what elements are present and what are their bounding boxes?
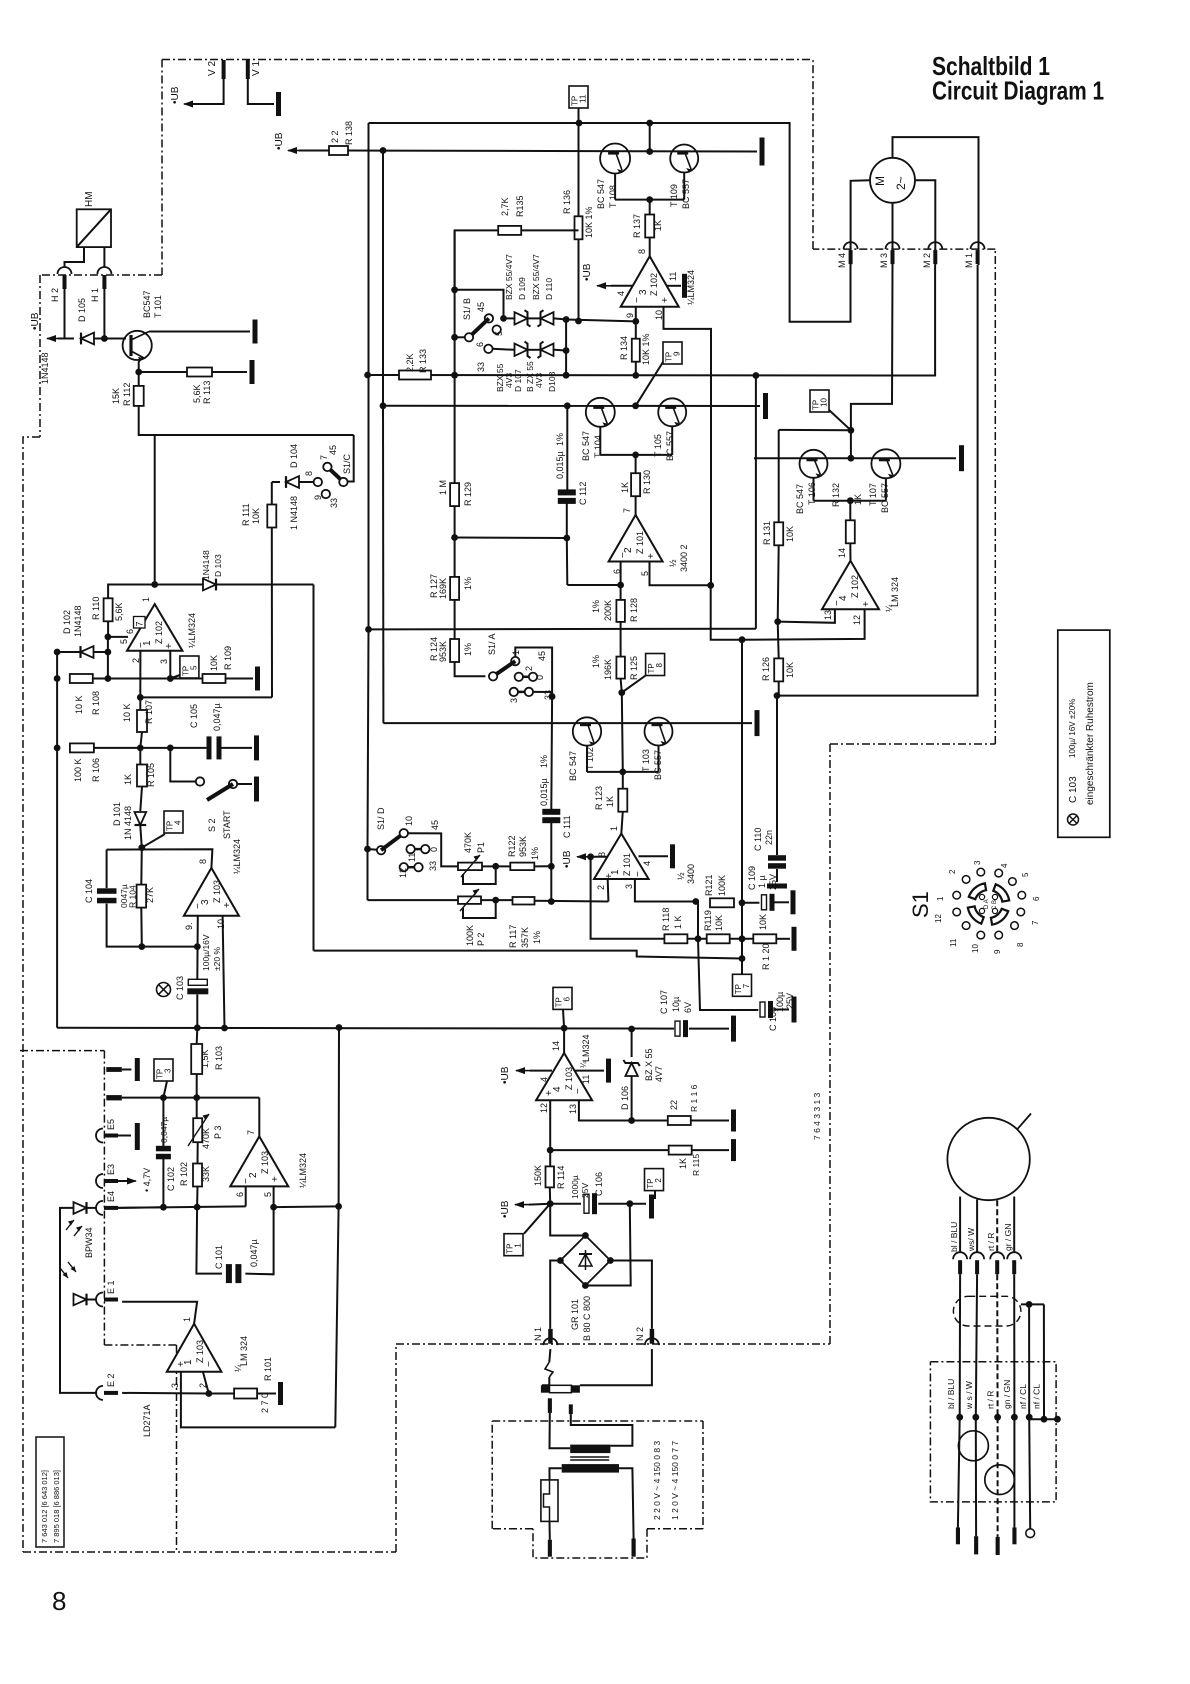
svg-text:−: −: [832, 600, 843, 606]
wire TP10 diagonal: [829, 410, 851, 430]
potentiometer P1 470K: [458, 832, 486, 870]
resistor R124 953K 1%: [429, 637, 473, 662]
bus to ground after C107: [689, 1028, 729, 1030]
wire C104 left loop: [106, 850, 108, 889]
svg-text:953K: 953K: [438, 641, 448, 662]
svg-text:5: 5: [189, 665, 198, 670]
junction zener column mid: [563, 347, 570, 354]
svg-text:R135: R135: [515, 195, 525, 217]
+UB arrow at Z102 pin4: [582, 263, 611, 289]
svg-text:200K: 200K: [603, 600, 613, 621]
svg-text:13: 13: [823, 610, 833, 620]
wire C108 to ground: [773, 1009, 789, 1011]
wire Z101 pin2: [607, 879, 610, 902]
C101 loop right: [245, 1207, 273, 1274]
labels C112: [555, 433, 588, 505]
svg-text:Circuit Diagram 1: Circuit Diagram 1: [932, 76, 1104, 106]
resistor R118 1K: [661, 908, 687, 944]
svg-text:R 126: R 126: [761, 657, 771, 681]
potentiometer P3 470K: [193, 1118, 223, 1149]
svg-text:S 2: S 2: [207, 818, 217, 832]
wire pin6 to R128: [620, 585, 622, 600]
svg-text:D 109: D 109: [517, 277, 527, 300]
svg-text:10: 10: [404, 816, 414, 826]
svg-text:R 101: R 101: [263, 1357, 273, 1381]
wire Z102 pin11 to bar: [667, 285, 682, 287]
resistor R134 10K 1%: [619, 333, 651, 365]
wire tap1 down: [550, 1413, 571, 1448]
ground at C109: [791, 890, 796, 914]
svg-text:4: 4: [1000, 863, 1009, 868]
switch S1/D contact 10: [400, 829, 408, 837]
svg-text:•UB: •UB: [170, 86, 181, 104]
top-left pin to ground pair: [106, 1067, 131, 1072]
bridge rectifier GR101 B80C800: [560, 1236, 610, 1342]
svg-text:R 114: R 114: [556, 1166, 566, 1189]
svg-text:GR 101: GR 101: [570, 1299, 580, 1330]
C110 to ground: [776, 869, 778, 882]
svg-text:E 1: E 1: [106, 1280, 116, 1294]
wire junction to C112 column: [455, 537, 567, 540]
wire E5 to ground: [118, 1135, 131, 1137]
svg-text:R 105: R 105: [146, 763, 156, 787]
svg-text:9: 9: [673, 351, 682, 356]
wire D101 to output node: [140, 826, 142, 848]
wire T106 base down: [813, 478, 815, 501]
svg-text:½: ½: [676, 872, 686, 880]
wire emitter join row: [615, 199, 684, 201]
capacitor C105 0,047u: [207, 736, 222, 759]
transformer dashed box bottom right: [647, 1528, 703, 1530]
relay HM: [77, 191, 111, 247]
ground at S2: [254, 777, 259, 802]
transformer secondary winding bar: [562, 1464, 619, 1473]
resistor R101 270: [234, 1357, 273, 1413]
junction box gn: [1011, 1414, 1018, 1421]
label 1/4 LM324 at Z103-3: [232, 839, 242, 874]
junction oval right: [1026, 1301, 1033, 1308]
motor lead ws/W: [976, 1200, 978, 1253]
wire H2 down to +UB row: [64, 289, 66, 339]
wire nf bus: [1029, 1418, 1057, 1420]
svg-text:•UB: •UB: [500, 1200, 511, 1218]
svg-text:R 118: R 118: [661, 908, 671, 931]
labels S2 START: [207, 810, 232, 839]
resistor R116 22: [668, 1084, 699, 1125]
svg-text:R 132: R 132: [831, 483, 841, 507]
switch S2 contact a: [196, 777, 204, 785]
connector M3: [879, 242, 900, 268]
junction jogline riser: [739, 955, 746, 962]
svg-text:R 112: R 112: [122, 383, 132, 406]
svg-text:1%: 1%: [532, 931, 542, 944]
electrolytic capacitor C109 1u 25V: [762, 894, 775, 911]
wire R114 node down: [550, 1204, 585, 1236]
svg-text:V 2: V 2: [207, 61, 218, 76]
junction S1D wiper column: [364, 846, 371, 853]
svg-text:R 109: R 109: [223, 646, 233, 670]
svg-text:LD271A: LD271A: [142, 1404, 152, 1437]
svg-text:R 117: R 117: [508, 925, 518, 948]
wire pin6 row from C112: [567, 584, 620, 586]
wire base column: [649, 123, 651, 152]
svg-text:BPW34: BPW34: [84, 1227, 94, 1258]
svg-text:100µ/16V: 100µ/16V: [201, 934, 211, 971]
svg-text:4: 4: [642, 861, 652, 866]
ground at Z101 pin4: [670, 844, 675, 868]
svg-text:1 M: 1 M: [438, 480, 448, 495]
ground at Z103-4 pin11: [606, 1059, 611, 1083]
junction TP10 / R131 row: [848, 427, 855, 434]
switch S2 wiper: [207, 784, 233, 800]
junction left column R106 row: [54, 745, 61, 752]
test point TP10: [810, 390, 829, 412]
junction R110 / pin56 stub: [105, 634, 112, 641]
wire bus to Z103-4 pin14: [563, 1028, 565, 1053]
test point TP2: [645, 1169, 664, 1191]
switch S2 contact b: [229, 780, 237, 788]
lead rt in box: [997, 1417, 999, 1537]
junction base row center G: [619, 769, 626, 776]
wire D102 row: [57, 651, 81, 653]
zener diode D107 BZX55 4V3: [515, 342, 531, 358]
svg-text:0: 0: [535, 675, 545, 680]
pin7 box at Z102-1: [134, 617, 146, 629]
svg-text:470K: 470K: [463, 832, 473, 853]
junction x383 / T104 rail: [380, 402, 387, 409]
svg-text:R 128: R 128: [629, 598, 639, 622]
wire R117 to pin2: [534, 900, 608, 903]
ground at V1: [276, 92, 281, 116]
svg-text:R 103: R 103: [214, 1046, 224, 1070]
diode D102 1N4148: [81, 646, 94, 658]
labels C102: [159, 1117, 176, 1191]
wire R116 to ground: [691, 1120, 729, 1122]
wire R132 to Z102 pin14: [849, 543, 851, 561]
svg-text:rt / R: rt / R: [986, 1233, 996, 1251]
pcb dashed border y=744 segment: [830, 743, 995, 745]
svg-text:1%: 1%: [463, 643, 473, 656]
svg-text:C 112: C 112: [578, 482, 588, 505]
wire R135 left: [455, 230, 499, 289]
wire +UB to Z102 pin4: [611, 285, 633, 287]
svg-text:3: 3: [973, 860, 982, 865]
resistor R132 1K: [831, 483, 863, 543]
resistor R136 10K 1%: [562, 190, 594, 239]
pcb dashed border left upper segment: [161, 60, 163, 276]
junction R104 bottom: [138, 943, 145, 950]
svg-text:12: 12: [539, 1103, 549, 1113]
wire R103 to row2: [196, 1074, 198, 1098]
wire TP9 diagonal: [636, 362, 663, 406]
wire D106 to pin13 row: [631, 1076, 633, 1121]
ground at R116: [731, 1110, 736, 1132]
junction S1B wiper / column: [451, 334, 458, 341]
wire to R113: [139, 371, 187, 373]
svg-text:2: 2: [654, 1178, 663, 1183]
svg-text:P 2: P 2: [476, 933, 486, 946]
svg-text:D 103: D 103: [213, 554, 223, 577]
wire N2 to primary right: [580, 1349, 652, 1385]
wire Z101 pin4 to ground: [639, 855, 669, 857]
pcb dashed border right of sensor area x=396: [395, 1344, 397, 1552]
svg-text:S1/ D: S1/ D: [376, 807, 386, 830]
svg-text:7: 7: [622, 508, 632, 513]
svg-text:22n: 22n: [764, 830, 774, 845]
wire R135 right: [521, 229, 579, 231]
labels wire colors bottom: [946, 1379, 1042, 1410]
svg-text:5,6K: 5,6K: [192, 384, 202, 403]
note symbol circle-x at C103: [157, 983, 171, 997]
svg-text:0,047µ: 0,047µ: [249, 1239, 259, 1267]
connector N1: [533, 1327, 557, 1345]
svg-text:BC547: BC547: [142, 290, 152, 318]
svg-text:+: +: [646, 553, 657, 559]
wire H1 down to D105 row: [103, 289, 105, 339]
arrows into photodiode b: [60, 1262, 76, 1278]
junction box nf1: [1026, 1414, 1033, 1421]
svg-text:R 106: R 106: [91, 758, 101, 782]
svg-text:14: 14: [551, 1041, 561, 1051]
long vertical x=383: [382, 151, 384, 406]
wire TP6 stem: [563, 1009, 564, 1028]
zener diode D108 BZX55 4V3: [538, 342, 554, 358]
wire E1 row to Z103-1 apex: [122, 1302, 197, 1324]
svg-text:¼LM324: ¼LM324: [686, 270, 696, 305]
resistor R107 10K: [122, 700, 154, 732]
svg-text:D A: D A: [984, 899, 990, 909]
svg-text:D 104: D 104: [289, 444, 299, 468]
svg-text:T 108: T 108: [608, 185, 618, 208]
motor lead rt/R: [996, 1200, 998, 1252]
labels C111: [539, 755, 572, 838]
wire T101 collector to ground: [149, 331, 250, 333]
svg-text:1%: 1%: [591, 600, 601, 613]
junction bridge left: [557, 1257, 564, 1264]
wire R105 to D101: [140, 787, 142, 812]
wire R136 down to pin9 row: [578, 239, 580, 322]
svg-text:10K: 10K: [785, 662, 795, 678]
resistor R127 169K 1%: [429, 574, 473, 600]
connector H2: [50, 267, 72, 302]
wire to R137: [649, 200, 651, 215]
wire Z103-1 pin2: [203, 1372, 209, 1394]
junction P1/R122: [492, 863, 499, 870]
wire S1B contact riser: [455, 290, 504, 319]
junction bus / x338 column: [336, 1024, 343, 1031]
supply bar at T108 T109 rail: [760, 138, 765, 166]
junction pin2 node J: [205, 1390, 212, 1397]
op-amp U Z103 section 4: [536, 1041, 592, 1114]
labels C109: [747, 866, 778, 890]
resistor R121 100K: [704, 874, 734, 907]
svg-text:100µ: 100µ: [775, 992, 785, 1012]
x338 column: [335, 1028, 339, 1428]
page number 8: [52, 1586, 66, 1616]
resistor R137 1K: [632, 214, 663, 238]
wire base row T102 T103: [587, 771, 659, 773]
svg-text:+: +: [222, 902, 233, 908]
svg-text:D 107: D 107: [513, 369, 523, 392]
dashed oval cable marker: [953, 1296, 1021, 1326]
pin gn: [1012, 1528, 1016, 1545]
svg-text:−: −: [633, 871, 644, 877]
junction pin8 supply: [587, 853, 594, 860]
svg-text:1K: 1K: [653, 220, 663, 231]
svg-text:P1: P1: [476, 842, 486, 853]
transistor T102 BC547: [568, 717, 601, 781]
svg-text:H 1: H 1: [90, 288, 100, 302]
resistor R129 1M: [438, 480, 473, 506]
row2 wire: [122, 1097, 259, 1099]
left column to bus: [56, 748, 58, 1028]
capacitor C110 22n: [768, 855, 786, 869]
resistor R108 10K: [70, 674, 101, 715]
wire Z102 pin13: [778, 609, 835, 623]
part number box: [36, 1437, 64, 1547]
svg-text:7 643 012 [6 643 012]: 7 643 012 [6 643 012]: [40, 1470, 49, 1543]
svg-text:1 K: 1 K: [673, 915, 683, 929]
wire S2 column: [170, 748, 195, 782]
svg-text:8: 8: [52, 1586, 66, 1616]
svg-text:C 103: C 103: [1068, 776, 1079, 803]
labels D106: [620, 1048, 664, 1110]
junction H1/D105 row: [101, 335, 108, 342]
svg-text:C 106: C 106: [594, 1172, 604, 1196]
wire C112 column upper: [566, 406, 568, 490]
bus wire y=123 to M4 corner: [369, 123, 851, 322]
svg-text:100K: 100K: [717, 875, 727, 896]
label 1/4 LM324 at Z102-3: [686, 270, 696, 305]
svg-text:¼LM324: ¼LM324: [187, 613, 197, 648]
wire pin56 stub: [108, 636, 128, 638]
resistor R111 10K: [241, 503, 276, 527]
wire bridge right to N2: [610, 1261, 652, 1329]
lead nf in box: [1029, 1417, 1030, 1529]
wire R120 to ground: [777, 938, 790, 940]
pcb dashed border jog to x=23: [23, 437, 40, 1552]
wire C102 top: [162, 1098, 164, 1146]
svg-text:470K: 470K: [201, 1128, 211, 1149]
svg-text:4V3: 4V3: [534, 373, 544, 388]
svg-text:+: +: [164, 643, 175, 649]
connector motor rt: [990, 1252, 1004, 1274]
pcb dashed border right vertical upper x=813: [812, 60, 814, 250]
motor lead bl/BLU: [959, 1197, 961, 1253]
svg-text:BZX 55/4V7: BZX 55/4V7: [504, 254, 514, 300]
ground at E5: [135, 1123, 140, 1150]
junction rail375 / R124 column: [451, 372, 458, 379]
svg-text:R 130: R 130: [642, 470, 652, 494]
resistor R102 33K: [179, 1162, 211, 1187]
column x=454 S1B region: [454, 230, 456, 375]
test point TP8: [646, 654, 665, 676]
junction bus / TP6: [561, 1025, 568, 1032]
svg-text:−: −: [136, 642, 147, 648]
wire R137 to opamp Z102 pin8: [649, 237, 651, 256]
svg-text:2 2 0 V ~ 4 150 0 8 3: 2 2 0 V ~ 4 150 0 8 3: [652, 1441, 662, 1520]
T102 rail: [383, 722, 752, 724]
svg-text:Z 103: Z 103: [195, 1340, 205, 1363]
svg-text:S1/ B: S1/ B: [462, 298, 472, 320]
wire Z101 pin3: [635, 879, 696, 902]
ground at R101: [278, 1382, 283, 1405]
svg-text:BZX 55/4V7: BZX 55/4V7: [531, 254, 541, 300]
connector M2: [922, 242, 942, 268]
svg-text:45: 45: [537, 651, 547, 661]
resistor R119 10K: [703, 910, 730, 943]
pin ws: [974, 1536, 978, 1554]
svg-text:E 2: E 2: [106, 1373, 116, 1387]
labels D107 D108: [495, 361, 557, 392]
junction R136 column / pin9 row: [575, 318, 582, 325]
junction base row center: [632, 452, 639, 459]
svg-text:E4: E4: [106, 1191, 116, 1202]
wire T109 emitter: [683, 173, 685, 200]
svg-text:1: 1: [511, 650, 521, 655]
svg-text:w s / W: w s / W: [964, 1381, 974, 1410]
wire base row T104 T105: [600, 454, 672, 456]
transformer dashed box notch: [533, 1529, 647, 1558]
capacitor C111 0,015u: [542, 809, 560, 823]
wire R111 column: [271, 482, 273, 504]
svg-text:+: +: [270, 1176, 281, 1182]
wire Z103-1 pin3: [180, 1372, 182, 1393]
junction C112 column: [563, 535, 570, 542]
switch S1/C wiper: [327, 467, 343, 482]
wire Z103-4 pin13: [579, 1100, 632, 1120]
junction R121/C109: [739, 899, 746, 906]
labels D101: [112, 802, 133, 840]
svg-text:C 105: C 105: [189, 704, 199, 728]
svg-text:11: 11: [407, 853, 417, 862]
lead gn in box: [1013, 1417, 1015, 1527]
svg-text:V 1: V 1: [251, 61, 262, 76]
wire R131 row: [779, 429, 851, 431]
svg-text:BC 547: BC 547: [581, 431, 591, 461]
pcb dashed border left x=40: [39, 275, 41, 437]
svg-text:Z 102: Z 102: [850, 575, 860, 598]
svg-text:8: 8: [304, 471, 314, 476]
labels D103: [201, 550, 223, 580]
switch S1/B wiper: [469, 318, 489, 337]
svg-text:100 K: 100 K: [73, 758, 83, 782]
svg-text:Z 103: Z 103: [564, 1067, 574, 1090]
svg-text:BC 547: BC 547: [596, 179, 606, 209]
test point TP4: [164, 811, 183, 833]
wire Z101 pin5: [650, 562, 711, 586]
transistor T104 BC547: [581, 398, 615, 461]
zener column: [565, 320, 567, 376]
svg-text:2: 2: [596, 885, 606, 890]
mains switch symbol: [545, 1362, 553, 1377]
resistor R133 2,2K: [399, 349, 431, 380]
svg-text:−: −: [193, 903, 204, 909]
svg-text:6: 6: [1032, 896, 1041, 901]
junction bus / pin10 column: [221, 1025, 228, 1032]
wire node to C106: [550, 1203, 581, 1205]
transistor T107 BC557: [868, 449, 900, 513]
junction C106/TP2: [626, 1200, 633, 1207]
switch S1/C contact 8: [314, 478, 322, 486]
svg-text:N 2: N 2: [635, 1327, 645, 1341]
supply bar at T106 rail: [959, 445, 964, 471]
svg-text:0,015µ: 0,015µ: [555, 451, 565, 479]
svg-text:BC 557: BC 557: [665, 431, 675, 461]
C111 column lower: [550, 823, 552, 902]
primary tap pin 2: [569, 1404, 573, 1414]
svg-text:R 113: R 113: [202, 381, 212, 404]
